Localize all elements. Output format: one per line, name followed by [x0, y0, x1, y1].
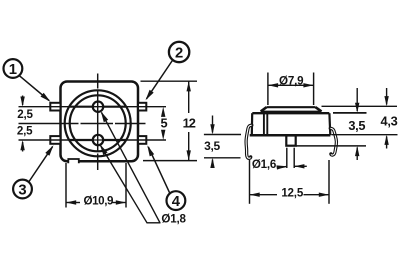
callout 2 leader — [147, 60, 173, 99]
dimension O/10,9 extension lines — [65, 163, 67, 208]
cap top — [267, 106, 316, 108]
bottom notch — [68, 157, 79, 164]
hole top (O/1,8) — [93, 102, 103, 112]
dimension 3,5 (left of side view) lines — [204, 134, 241, 136]
body interior vertical line a — [263, 111, 265, 134]
svg-text:1: 1 — [9, 62, 17, 78]
dimension 5 arrows and stem — [161, 107, 165, 117]
thin contact row line bottom — [19, 139, 167, 141]
hole centre ticks — [89, 106, 105, 108]
hole bottom (O/1,8) — [93, 135, 103, 145]
dimension 2,5 upper arrow — [22, 96, 24, 106]
dimension O/10,9 arrows — [66, 202, 80, 204]
left spring leg — [246, 125, 252, 158]
svg-text:12: 12 — [183, 115, 196, 130]
body-top extension line (right) — [333, 112, 367, 114]
dimension 12 extension top — [141, 80, 198, 82]
callout 3 leader — [29, 147, 53, 182]
callout circle 3 — [13, 180, 32, 199]
leader O/1,8 to top hole — [102, 113, 161, 223]
pin 2 (top-right) — [138, 103, 146, 111]
right spring leg — [330, 128, 336, 155]
cap bevel right — [316, 107, 322, 111]
leader O/1,8 to bottom hole — [101, 146, 148, 223]
callout circle 4 — [167, 191, 186, 210]
svg-text:2,5: 2,5 — [17, 108, 33, 121]
svg-text:4,3: 4,3 — [381, 113, 398, 128]
pin 1 (top-left) — [50, 103, 60, 111]
body right wall — [328, 113, 331, 135]
body left wall — [251, 113, 254, 135]
dimension O/7,9 extension lines — [267, 73, 269, 106]
callout circle 1 — [4, 59, 23, 78]
switch body outline — [61, 82, 139, 162]
svg-text:2,5: 2,5 — [17, 124, 33, 137]
svg-text:2: 2 — [175, 45, 183, 61]
svg-text:4: 4 — [172, 194, 181, 210]
svg-text:3,5: 3,5 — [348, 118, 365, 133]
dimension 12 extension bottom — [143, 160, 197, 162]
body interior vertical line b — [266, 113, 268, 134]
svg-text:5: 5 — [160, 116, 167, 131]
svg-text:3: 3 — [18, 182, 26, 198]
dimension 2,5 lower arrow — [22, 142, 24, 152]
svg-text:Ø10,9: Ø10,9 — [84, 194, 115, 207]
contact chord lines bottom row — [70, 139, 93, 141]
vertical centreline — [97, 74, 99, 171]
dimension O/1,6 arrows — [279, 166, 287, 168]
svg-text:Ø1,8: Ø1,8 — [161, 213, 186, 226]
callout 1 leader — [20, 76, 50, 101]
cap-top extension line (right) — [322, 105, 398, 107]
body bottom line — [250, 134, 331, 137]
svg-text:12,5: 12,5 — [281, 186, 304, 199]
dimension 12,5 extension lines — [249, 160, 251, 204]
dimension 12,5 line and arrows — [250, 194, 278, 196]
thin contact row line top (also 2,5 and 5 extension) — [19, 106, 167, 108]
svg-text:Ø7,9: Ø7,9 — [279, 74, 304, 87]
centre pin — [286, 136, 295, 146]
horizontal centreline (also 2,5 middle extension) — [19, 123, 146, 125]
dimension 4,3 arrows — [386, 88, 388, 105]
svg-text:Ø1,6: Ø1,6 — [252, 158, 277, 171]
dimension 12 stem and arrows — [188, 81, 190, 113]
dimension 3,5 (left) arrows — [212, 116, 214, 133]
dimension O/1,6 extension lines — [286, 148, 288, 168]
pin 3 (bottom-left) — [50, 136, 60, 144]
pin-bottom extension line — [296, 145, 366, 147]
cap rim line — [261, 110, 322, 112]
outer circle of round boss — [65, 90, 131, 156]
dimension O/7,9 line and arrows — [268, 84, 314, 86]
body-bottom extension line (right) — [332, 134, 398, 136]
inner circle of round boss — [70, 95, 126, 151]
pin 4 (bottom-right) — [138, 136, 146, 144]
cap bevel left — [261, 107, 267, 111]
leader O/1,8 underline — [147, 222, 161, 224]
dimension 3,5 (right side) arrows — [356, 88, 358, 111]
contact chord lines top row — [70, 106, 93, 108]
callout circle 2 — [169, 42, 189, 62]
callout 4 leader — [148, 147, 170, 194]
svg-text:3,5: 3,5 — [204, 139, 220, 153]
body top line — [252, 112, 329, 114]
